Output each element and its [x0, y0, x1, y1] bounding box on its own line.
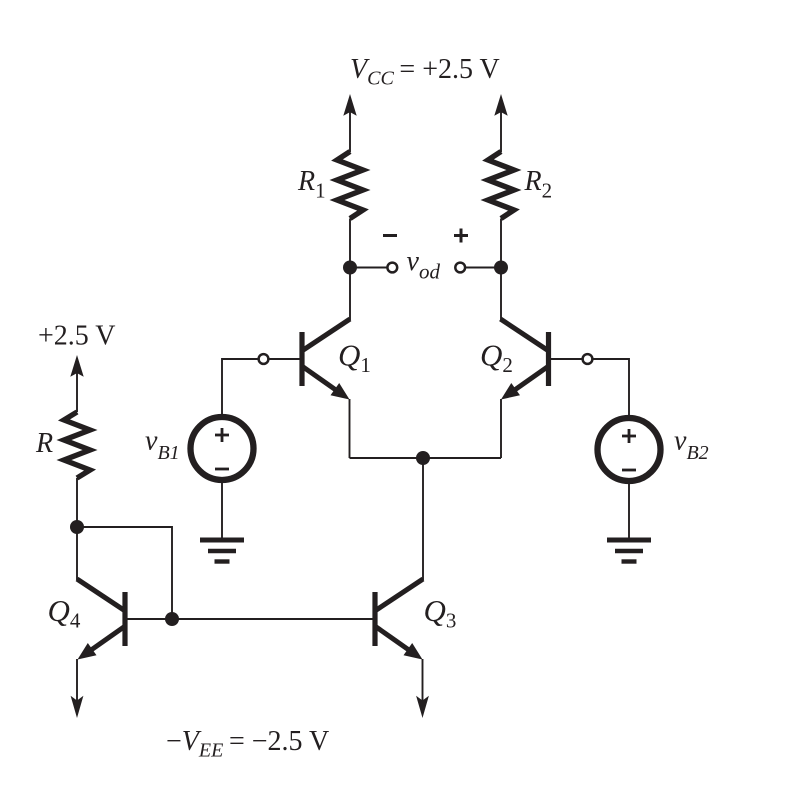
- terminal circle: Q1 base input: [259, 354, 269, 364]
- resistor R: [64, 412, 90, 478]
- wire Q4/Q3 base bus: [128, 618, 373, 620]
- svg-text:vB2: vB2: [674, 426, 709, 465]
- voltage source vB2: [598, 418, 661, 481]
- transistor Q4: [77, 579, 125, 660]
- transistor Q2: [501, 319, 549, 400]
- wire common emitter to Q3 collector: [422, 458, 424, 580]
- node: R1 / Q1 collector / output junction: [343, 261, 357, 275]
- node: R2 / Q2 collector / output junction: [494, 261, 508, 275]
- wire R1 bottom to Q1 collector: [349, 219, 351, 321]
- minus sign (output polarity): [383, 234, 397, 237]
- transistor Q1: [302, 319, 350, 400]
- svg-text:R1: R1: [297, 166, 326, 203]
- supply arrow +2.5 V: [70, 355, 83, 412]
- wire R bottom to Q4 collector: [76, 478, 78, 580]
- node: Q4 base / Q3 base junction: [165, 612, 179, 626]
- resistor R2: [488, 152, 514, 219]
- svg-text:Q2: Q2: [480, 338, 513, 378]
- wire positive output terminal to right node: [466, 267, 501, 269]
- svg-text:VCC = +2.5 V: VCC = +2.5 V: [350, 54, 500, 90]
- wire vB2 to ground: [628, 484, 630, 540]
- svg-text:R: R: [35, 428, 53, 459]
- terminal circle: negative output: [387, 263, 397, 273]
- wire R2 bottom to Q2 collector: [500, 219, 502, 321]
- svg-text:Q1: Q1: [338, 338, 371, 378]
- svg-text:vod: vod: [407, 246, 441, 284]
- ground (vB1): [200, 540, 244, 562]
- wire node to negative output terminal: [350, 267, 387, 269]
- supply arrow VCC left branch: [343, 94, 356, 152]
- wire Q2 emitter down: [500, 399, 502, 458]
- wire common emitter bus: [350, 457, 502, 459]
- svg-text:+2.5 V: +2.5 V: [38, 321, 116, 352]
- plus sign (output polarity): [454, 229, 468, 243]
- svg-text:Q3: Q3: [424, 593, 457, 633]
- supply arrow VCC right branch: [494, 94, 507, 152]
- svg-text:Q4: Q4: [48, 593, 81, 633]
- resistor R1: [337, 152, 363, 219]
- node: R / Q4 collector / mirror junction: [70, 520, 84, 534]
- wire Q2 base lead: [551, 358, 582, 360]
- wire Q1 emitter down: [349, 399, 351, 458]
- wire Q1 base lead: [270, 358, 300, 360]
- svg-text:R2: R2: [524, 166, 553, 203]
- terminal circle: positive output: [455, 263, 465, 273]
- wire base circle to vB2 source: [593, 358, 630, 417]
- wire mirror node across to base column: [77, 526, 172, 619]
- terminal circle: Q2 base input: [583, 354, 593, 364]
- voltage source vB1: [191, 417, 254, 480]
- node: common emitter junction: [416, 451, 430, 465]
- ground (vB2): [607, 540, 651, 562]
- wire Q3 emitter tail with arrow to -VEE: [416, 659, 429, 718]
- wire Q4 emitter tail with arrow to -VEE: [71, 659, 84, 718]
- transistor Q3: [375, 579, 423, 660]
- svg-text:vB1: vB1: [145, 426, 180, 465]
- wire vB1 to ground: [221, 483, 223, 540]
- wire base circle to vB1 source: [222, 358, 259, 416]
- svg-text:−VEE = −2.5 V: −VEE = −2.5 V: [166, 726, 329, 762]
